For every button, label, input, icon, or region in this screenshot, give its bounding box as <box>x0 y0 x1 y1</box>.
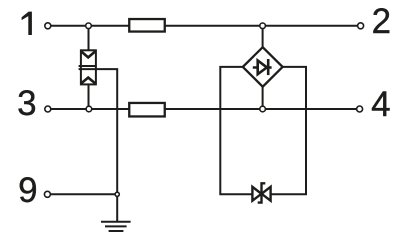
terminal 4 circle <box>357 106 363 112</box>
surge arrester divider upper line <box>79 65 97 67</box>
node junction mid-left <box>86 106 92 112</box>
node junction top-left <box>86 23 92 29</box>
node junction top-right <box>260 23 266 29</box>
wire bridge left corner to TVS loop <box>220 67 252 194</box>
pin label 1 <box>22 12 32 35</box>
wire bridge top lead <box>262 26 264 48</box>
bridge diode horizontal line <box>253 66 272 68</box>
node junction mid-right <box>260 106 266 112</box>
resistor R1 <box>129 19 165 32</box>
TVS zener bar with hooks <box>258 183 266 202</box>
pin label 3 <box>17 86 36 121</box>
wire bridge bottom lead <box>262 86 264 109</box>
wire bottom 9 to ground node <box>50 193 117 195</box>
terminal 9 circle <box>44 191 50 197</box>
pin label 9 <box>18 173 37 208</box>
terminal 3 circle <box>45 106 51 112</box>
surge arrester body box <box>79 50 97 84</box>
wire bridge right corner to TVS loop <box>271 67 307 194</box>
wire arrester top lead <box>88 26 90 51</box>
TVS right triangle <box>262 187 271 201</box>
surge arrester bottom chevron <box>81 78 95 84</box>
wire top rail 1-2 <box>51 25 358 27</box>
terminal 1 circle <box>45 23 51 29</box>
wire arrester center tap to ground <box>96 69 117 221</box>
pin label 2 <box>372 4 391 39</box>
resistor R2 <box>129 103 165 117</box>
ground symbol <box>101 222 131 231</box>
wire middle rail 3-4 <box>51 108 357 110</box>
wire arrester bottom lead <box>88 84 90 109</box>
surge arrester top chevron <box>81 52 95 58</box>
terminal 2 circle <box>358 23 364 29</box>
TVS left triangle <box>252 187 261 201</box>
pin label 4 <box>371 87 390 122</box>
surge arrester divider lower line <box>79 68 97 70</box>
bridge diode cathode bar <box>267 59 270 75</box>
bridge diode triangle <box>258 61 267 75</box>
node junction ground <box>115 192 119 196</box>
bridge rectifier diamond <box>243 47 283 86</box>
